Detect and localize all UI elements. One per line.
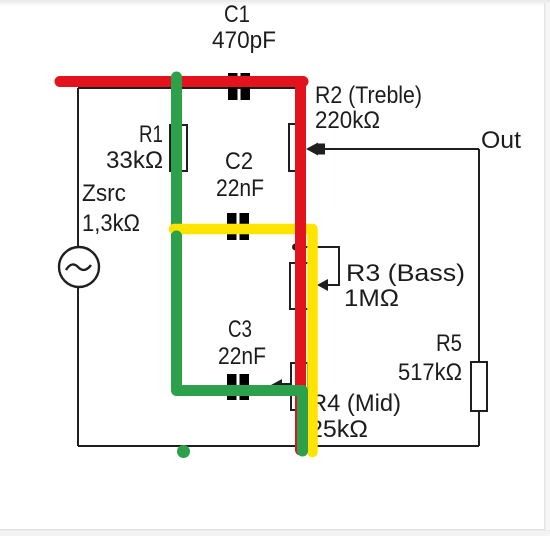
svg-text:R3 (Bass): R3 (Bass) — [346, 260, 465, 287]
svg-text:C2: C2 — [225, 148, 253, 175]
wire right vertical upper — [478, 149, 480, 362]
svg-text:25kΩ: 25kΩ — [309, 416, 368, 443]
svg-text:R4 (Mid): R4 (Mid) — [310, 390, 401, 417]
green junction dot — [177, 445, 190, 458]
resistor R5 — [471, 362, 487, 411]
wire R2 to node — [300, 171, 302, 263]
node junction at R3 loop — [292, 244, 299, 251]
svg-text:Out: Out — [481, 127, 521, 154]
wire green column — [177, 228, 179, 387]
svg-text:1,3kΩ: 1,3kΩ — [82, 210, 140, 237]
window right border — [545, 3, 550, 530]
resistor R3 — [290, 263, 309, 309]
red highlight horizontal segment — [60, 76, 303, 87]
capacitor C2 plates — [227, 213, 249, 240]
svg-text:22nF: 22nF — [216, 175, 264, 202]
svg-text:220kΩ: 220kΩ — [315, 107, 380, 134]
wire C3 row — [178, 386, 292, 388]
wire out horizontal — [318, 148, 479, 150]
wire left vertical upper — [77, 88, 79, 248]
wire mid vertical segments — [300, 88, 302, 125]
svg-text:R5: R5 — [436, 330, 462, 357]
source sine mark — [66, 264, 91, 270]
window bottom border — [0, 530, 550, 536]
green highlight lower segment — [177, 236, 303, 451]
R3 wiper arrow — [317, 279, 328, 291]
resistor R1 — [170, 125, 187, 171]
wire R4 to bottom — [300, 410, 302, 446]
green highlight upper segment — [171, 77, 182, 236]
capacitor C3 plates — [227, 374, 249, 400]
svg-text:1MΩ: 1MΩ — [344, 285, 399, 312]
yellow highlight path — [174, 229, 313, 452]
resistor R2 — [289, 124, 304, 171]
wire R1 stem bottom — [177, 171, 179, 229]
wire bottom horizontal — [78, 445, 479, 447]
capacitor C1 plates — [228, 73, 250, 100]
svg-text:R2 (Treble): R2 (Treble) — [315, 82, 422, 109]
resistor R4 — [291, 363, 308, 410]
svg-text:R1: R1 — [139, 121, 163, 148]
R4 wiper arrow — [271, 379, 292, 391]
wire R3 wiper loop — [297, 247, 339, 285]
svg-text:C1: C1 — [224, 1, 250, 28]
svg-text:517kΩ: 517kΩ — [398, 359, 462, 386]
wire C2 row — [178, 227, 301, 229]
window top edge — [0, 0, 550, 2]
R2 wiper arrow — [306, 143, 325, 156]
svg-text:22nF: 22nF — [218, 343, 266, 370]
wire left vertical lower — [77, 287, 79, 446]
svg-text:Zsrc: Zsrc — [82, 180, 126, 207]
wire R1 stem top — [177, 88, 179, 125]
source V1 circle — [59, 247, 99, 287]
svg-text:C3: C3 — [228, 316, 252, 343]
wire top horizontal — [78, 87, 301, 89]
svg-text:33kΩ: 33kΩ — [106, 147, 163, 174]
wire R3 to R4 — [300, 309, 302, 363]
svg-text:470pF: 470pF — [212, 27, 276, 54]
red highlight vertical segment — [295, 84, 306, 450]
wire right vertical lower — [478, 411, 480, 446]
